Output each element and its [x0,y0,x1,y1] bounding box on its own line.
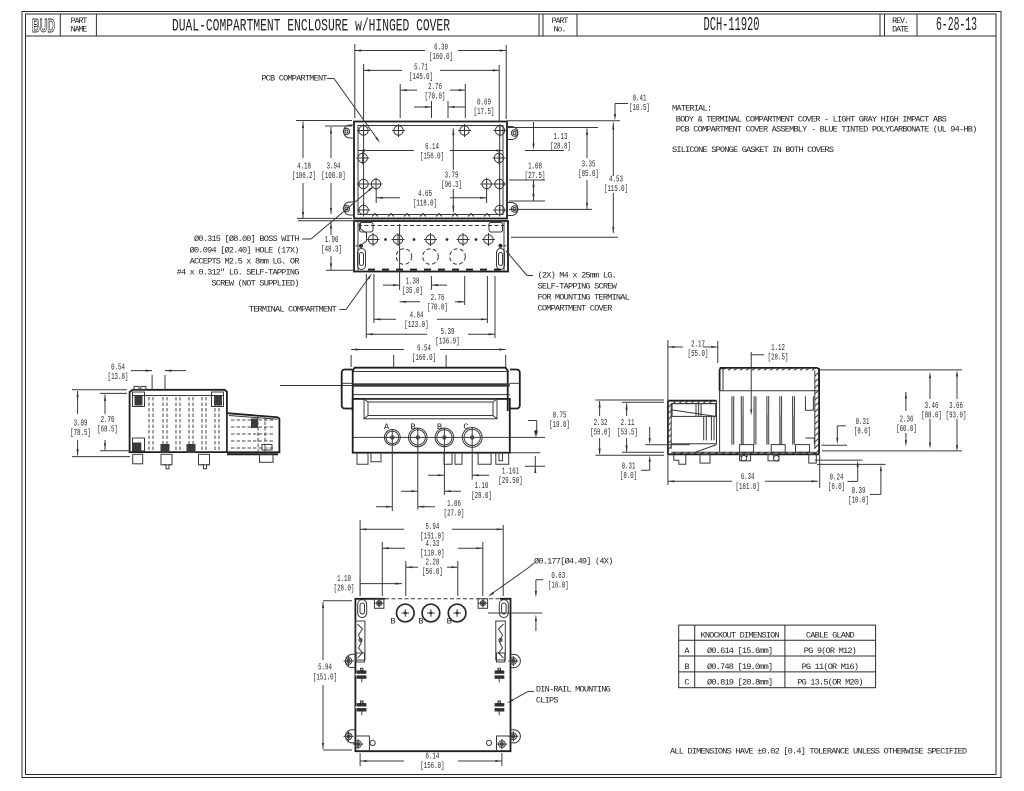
svg-text:SELF-TAPPING SCREW: SELF-TAPPING SCREW [538,282,618,292]
bottom view knockout circles [397,604,415,622]
svg-text:[100.0]: [100.0] [321,170,345,181]
section dim 0.31/8.0 left [645,444,690,446]
top view bosses row2 [358,153,367,162]
svg-text:[136.9]: [136.9] [435,336,459,347]
svg-text:Ø0.748 [19.0mm]: Ø0.748 [19.0mm] [707,662,772,672]
left view hinge bumps top [134,386,139,390]
dim 6.14/156.0 top view [359,150,415,152]
svg-text:[118.0]: [118.0] [413,198,437,209]
svg-text:[28.5]: [28.5] [768,352,789,363]
dim 5.39/136.9 [365,274,367,338]
dim 5.94/151.0 horizontal [359,520,361,596]
svg-text:PCB COMPARTMENT COVER ASSEMBLY: PCB COMPARTMENT COVER ASSEMBLY - BLUE TI… [676,125,977,135]
dim 0.69/17.5 [431,101,433,118]
front view top ticks [393,355,395,367]
front view feet [357,453,368,465]
section dim 0.39/10.0 [870,493,881,495]
dim 3.94/100.0 [325,125,352,127]
front view cover top inner line [354,371,510,373]
section bottom band hatched [668,453,819,455]
knockout table frame [679,625,876,688]
bottom view top oval slots [358,600,367,618]
svg-text:B: B [418,617,423,627]
svg-text:[60.0]: [60.0] [896,423,917,434]
svg-text:Ø0.177[Ø4.49] (4X): Ø0.177[Ø4.49] (4X) [534,557,612,567]
dim 1.06/27.0 (A-B) [376,506,392,508]
svg-text:B: B [390,617,395,627]
svg-text:[27.0]: [27.0] [444,507,465,518]
dim 0.75/19.0 [528,420,537,422]
svg-text:[28.0]: [28.0] [471,490,492,501]
svg-text:[48.3]: [48.3] [321,244,342,255]
left side view outline [130,390,227,452]
svg-text:C: C [463,422,468,432]
front view cover top [353,368,508,411]
terminal bosses [368,235,377,244]
svg-text:[29.50]: [29.50] [498,475,522,486]
dim 5.94/151.0 vertical [323,600,352,602]
connector line left-front views [280,385,352,387]
dim 4.53/115.0 [612,123,614,177]
svg-text:PCB COMPARTMENT: PCB COMPARTMENT [261,74,327,84]
svg-text:[123.0]: [123.0] [404,319,428,330]
svg-text:B: B [437,422,442,432]
svg-text:FOR MOUNTING TERMINAL: FOR MOUNTING TERMINAL [538,293,630,303]
left view inner lip [133,395,224,397]
svg-text:SILICONE SPONGE GASKET IN BOTH: SILICONE SPONGE GASKET IN BOTH COVERS [672,145,834,155]
svg-text:[56.0]: [56.0] [422,566,443,577]
section dim 2.32/59.0 [595,399,664,401]
svg-text:[28.8]: [28.8] [550,141,571,152]
svg-text:(2X) M4 x 25mm LG.: (2X) M4 x 25mm LG. [538,271,616,281]
left view feet [133,454,143,464]
section dim 3.46/88.0 [929,378,931,400]
svg-text:PG 13.5(OR M20): PG 13.5(OR M20) [797,678,862,688]
svg-text:PG 11(OR M16): PG 11(OR M16) [802,662,859,672]
top view: PCB compartment body [354,122,507,219]
section dim 1.12/28.5 [751,354,764,356]
dim 5.71/145.0 [363,64,365,119]
svg-text:[156.0]: [156.0] [420,760,444,771]
svg-text:[78.5]: [78.5] [70,427,91,438]
bottom view body [355,599,510,751]
section floor and gusset [671,443,716,445]
bottom view corner chamfer details [355,736,369,751]
svg-text:A: A [684,646,690,656]
dim 1.13/28.8 [533,122,535,144]
svg-text:BODY & TERMINAL COMPARTMENT CO: BODY & TERMINAL COMPARTMENT COVER - LIGH… [676,115,947,125]
leader 2X M4 [527,275,533,277]
svg-text:[161.0]: [161.0] [736,481,760,492]
front view recess panel [364,399,497,419]
svg-text:SCREW (NOT SUPPLIED): SCREW (NOT SUPPLIED) [211,279,298,289]
section right ref lines [818,369,962,371]
svg-text:PG 9(OR M12): PG 9(OR M12) [804,646,856,656]
terminal small dots [384,238,387,241]
svg-text:[55.0]: [55.0] [688,348,709,359]
svg-text:B: B [447,617,452,627]
section rib feet pads [740,445,754,453]
dim 1.10/28.0 bottom view [359,578,361,596]
section terminal lid [672,404,716,417]
svg-text:[93.0]: [93.0] [946,409,967,420]
svg-text:[17.5]: [17.5] [474,106,495,117]
front view centerline [353,436,545,438]
left view step blob [251,419,258,429]
svg-text:[8.0]: [8.0] [620,470,637,481]
top view bosses row4 corners [359,205,368,214]
terminal screw dots 2X M4 [359,244,363,248]
svg-text:Ø0.315 [Ø8.00] BOSS WITH: Ø0.315 [Ø8.00] BOSS WITH [194,234,299,244]
svg-text:No.: No. [554,26,566,35]
svg-text:B: B [684,662,689,672]
svg-text:[13.8]: [13.8] [108,371,129,382]
dim 6.54/166.0 front [350,355,352,367]
svg-text:C: C [684,678,689,688]
dim 6.30/160.0 [354,44,356,118]
svg-text:DCH-11920: DCH-11920 [704,14,760,36]
left view rib feet bosses [161,444,170,453]
dim 2.76/70.0 top [399,84,401,118]
svg-text:[106.2]: [106.2] [292,170,316,181]
svg-text:[19.0]: [19.0] [549,419,570,430]
top view right extension lines [507,120,620,122]
terminal left bracket detail [361,223,367,244]
svg-text:BUD: BUD [32,15,55,36]
section dim 2.11/53.5 [622,401,664,403]
svg-text:COMPARTMENT COVER: COMPARTMENT COVER [538,304,613,314]
svg-text:[85.0]: [85.0] [578,168,599,179]
svg-text:TERMINAL COMPARTMENT: TERMINAL COMPARTMENT [249,305,337,315]
bottom view side ear screws [346,654,356,667]
top view bosses row1 [359,126,368,135]
svg-text:[70.0]: [70.0] [427,301,448,312]
svg-text:[16.0]: [16.0] [548,580,569,591]
terminal knockout dashed circles [396,249,412,265]
front view circle ext lines down [391,429,393,511]
svg-text:NAME: NAME [71,26,88,35]
section left wall hatched [667,401,669,455]
svg-text:[6.0]: [6.0] [828,481,845,492]
svg-text:[59.0]: [59.0] [590,426,611,437]
dim 0.54/13.8 [151,375,153,390]
bottom view DIN clip left [355,621,365,660]
svg-text:B: B [410,422,415,432]
terminal compartment body [354,221,508,272]
dim 1.90/48.3 [326,269,354,271]
section step wall [716,401,718,444]
svg-text:[28.0]: [28.0] [334,583,355,594]
top view corner ears [344,125,355,138]
dim 0.63/16.0 [536,579,543,581]
svg-text:CABLE GLAND: CABLE GLAND [806,630,855,640]
bottom view clip bottom box [356,653,364,662]
dim 4.84/123.0 [373,274,375,323]
svg-text:MATERIAL:: MATERIAL: [672,104,711,114]
svg-text:CLIPS: CLIPS [536,696,558,706]
left view hinge knuckle detail [133,392,145,407]
svg-text:Ø0.094 [Ø2.40] HOLE (17X): Ø0.094 [Ø2.40] HOLE (17X) [190,246,299,256]
svg-text:[27.5]: [27.5] [525,170,546,181]
svg-text:[35.0]: [35.0] [402,285,423,296]
svg-text:[96.3]: [96.3] [441,179,462,190]
svg-text:[88.0]: [88.0] [921,409,942,420]
svg-text:[53.5]: [53.5] [617,426,638,437]
section interior ribs [731,396,733,444]
svg-text:[156.0]: [156.0] [420,150,444,161]
front view hinge pin band [353,383,510,386]
section bottom feet [674,454,686,464]
section right wall [818,368,820,454]
top view boss column lines [363,126,365,215]
svg-text:KNOCKOUT DIMENSION: KNOCKOUT DIMENSION [700,630,779,640]
section raised cover shell [720,367,723,369]
svg-text:[10.5]: [10.5] [629,102,650,113]
dim arrows B1-B2 [401,490,418,492]
svg-text:DIN-RAIL MOUNTING: DIN-RAIL MOUNTING [536,685,611,695]
dim 2.70/68.5 [100,392,127,394]
front view bottom edge ext [510,452,541,454]
dim 1.10/28.0 (B-C) [428,474,444,476]
section dim 2.17/55.0 [667,340,669,485]
front view knockout circles A B B C [384,430,400,446]
bottom view clip teeth [357,670,367,678]
dim 6.14/156.0 bottom [359,753,361,766]
section rib shading [741,415,743,444]
top view gasket ticks bottom [372,214,378,217]
terminal bottom gasket ticks [368,269,375,271]
top view bosses row3 [359,179,368,188]
section left top edge [668,400,717,402]
left view step interior dashes [231,419,275,421]
svg-text:[151.0]: [151.0] [313,671,337,682]
left view dashed ribs [148,397,150,450]
svg-text:[8.0]: [8.0] [854,425,871,436]
dim 1.08/27.5 [509,179,545,181]
terminal corner pads [360,223,374,233]
svg-text:DATE: DATE [892,26,909,35]
section right bracket [805,396,813,410]
svg-text:[115.0]: [115.0] [604,183,628,194]
leader boss note [302,238,311,240]
dim 4.65/118.0 top view [375,189,377,203]
dim 2.76/70.0 bottom [464,276,466,305]
svg-text:ALL DIMENSIONS HAVE ±0.02 [0.4: ALL DIMENSIONS HAVE ±0.02 [0.4] TOLERANC… [670,747,967,757]
title block band [26,35,997,37]
bottom view bottom corner screws [355,741,362,748]
section dim 3.66/93.0 [956,376,958,399]
svg-text:Ø0.819 [20.8mm]: Ø0.819 [20.8mm] [707,678,772,688]
svg-text:[166.0]: [166.0] [412,352,436,363]
svg-text:[70.0]: [70.0] [425,91,446,102]
svg-text:Ø0.614 [15.6mm]: Ø0.614 [15.6mm] [707,646,772,656]
left side view step (terminal section) [227,413,280,452]
bottom view DIN clip right [496,621,506,660]
section dim 0.24/6.0 [848,480,858,482]
section dim 0.31/8.0 right [837,425,845,427]
svg-text:#4 x 0.312" LG. SELF-TAPPING: #4 x 0.312" LG. SELF-TAPPING [177,268,300,278]
svg-text:DUAL-COMPARTMENT ENCLOSURE w/H: DUAL-COMPARTMENT ENCLOSURE w/HINGED COVE… [172,17,450,37]
svg-text:[10.0]: [10.0] [848,494,869,505]
dim 3.09/78.5 [72,389,127,391]
front view hinge tabs [342,370,353,409]
dim 3.79/96.3 top view [452,128,454,170]
terminal oval slots [358,249,366,270]
section dim 2.36/60.0 [905,392,907,411]
svg-text:[160.0]: [160.0] [429,51,453,62]
section terminal legs [703,416,705,440]
svg-text:[68.5]: [68.5] [97,423,118,434]
dim 3.35/85.0 [586,129,588,159]
bottom view small holes [370,740,375,745]
section dim 6.34/161.0 [819,455,821,488]
bottom view top screws 4X [374,599,384,609]
dim 2.20/56.0 [405,561,407,596]
svg-text:6-28-13: 6-28-13 [936,14,977,36]
svg-text:ACCEPTS M2.5 x 8mm LG. OR: ACCEPTS M2.5 x 8mm LG. OR [190,257,300,267]
dim 4.33/110.0 [381,542,383,596]
front view cover bottom edge [353,394,510,396]
front view body [353,399,510,453]
dim 0.41/10.5 bracket [615,103,628,105]
dim 1.161/29.50 [525,465,545,467]
dim 1.38/35.0 [399,224,401,290]
dim 4.18/106.2 [296,120,352,122]
